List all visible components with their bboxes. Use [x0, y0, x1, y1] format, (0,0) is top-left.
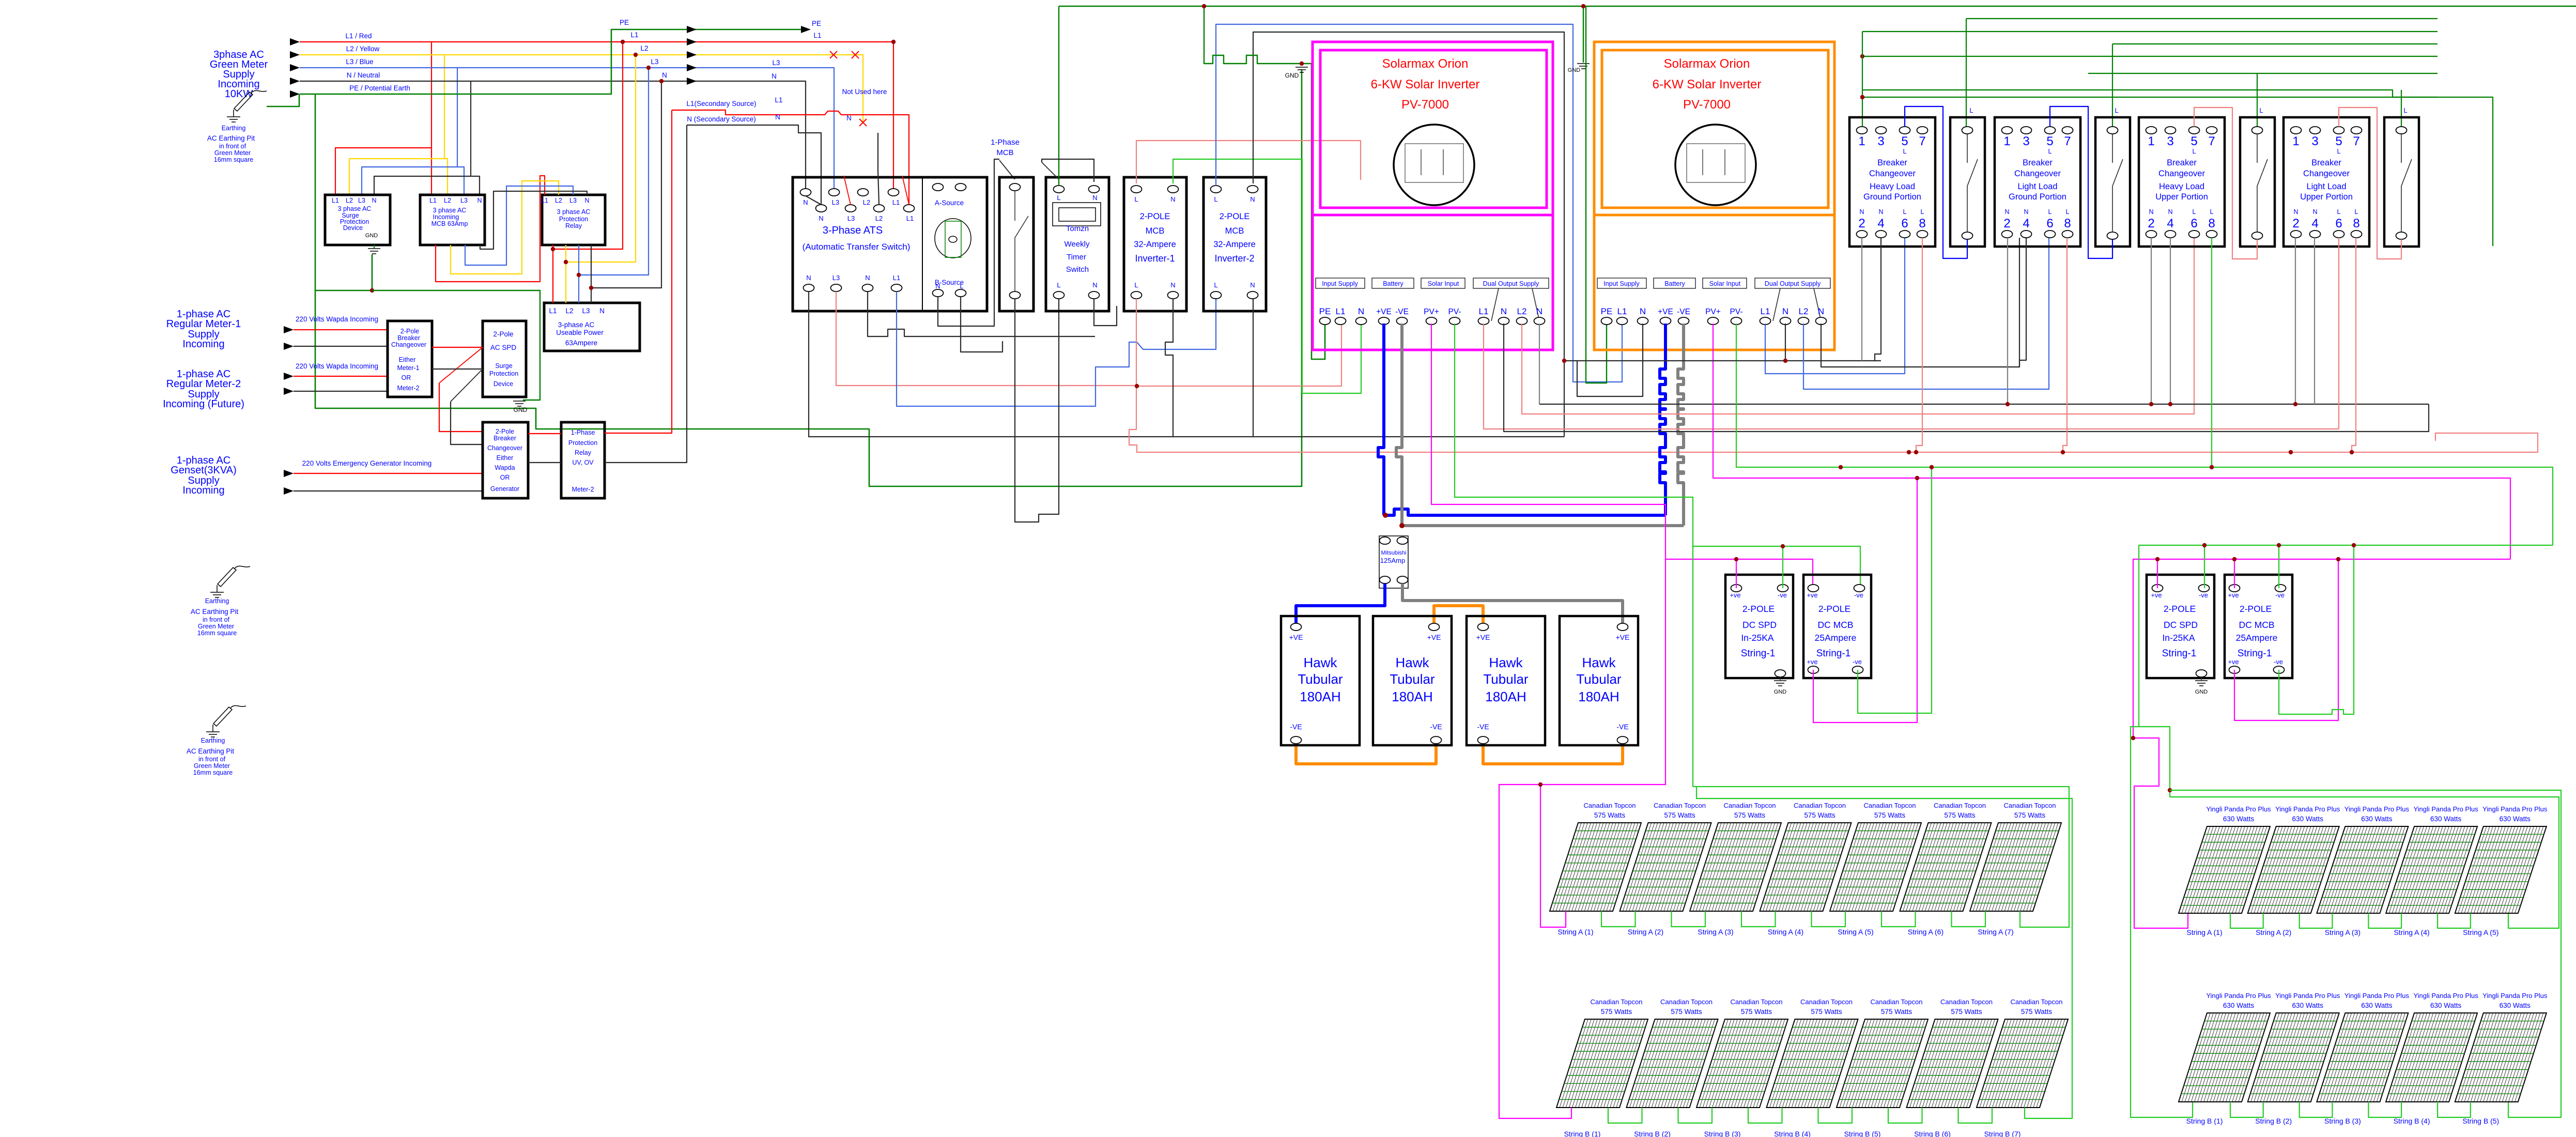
svg-text:Solarmax Orion: Solarmax Orion — [1664, 57, 1750, 71]
svg-text:Heavy Load: Heavy Load — [2159, 182, 2204, 191]
wire breaker4 pin8 drop — [2350, 238, 2356, 454]
svg-text:Ground Portion: Ground Portion — [1863, 192, 1921, 202]
svg-text:Canadian Topcon: Canadian Topcon — [1864, 802, 1916, 809]
tomzn bottom pins — [1054, 281, 1100, 299]
earthing rod 2 — [210, 566, 250, 597]
svg-text:-VE: -VE — [1430, 723, 1442, 731]
svg-text:5: 5 — [2046, 134, 2053, 148]
wire inv2 dual L1 blue — [1765, 238, 1905, 374]
svg-text:L2 / Yellow: L2 / Yellow — [346, 45, 380, 53]
svg-text:2: 2 — [2003, 217, 2010, 231]
svg-text:32-Ampere: 32-Ampere — [1134, 240, 1176, 249]
wire breaker3 pin4 drop — [2168, 238, 2172, 406]
svg-text:1: 1 — [2148, 134, 2154, 148]
svg-text:575 Watts: 575 Watts — [1881, 1008, 1912, 1016]
mitsubishi 125Amp box — [1379, 536, 1408, 588]
svg-text:L2: L2 — [1799, 306, 1809, 316]
svg-text:DC SPD: DC SPD — [2164, 620, 2198, 630]
svg-text:2-POLE: 2-POLE — [1742, 604, 1775, 614]
svg-text:L: L — [1903, 208, 1907, 216]
wire N main black — [300, 81, 806, 192]
svg-text:10KW: 10KW — [225, 88, 253, 100]
svg-text:L2: L2 — [555, 197, 562, 204]
wire left string B return green — [1696, 787, 2072, 1118]
svg-text:L: L — [1903, 148, 1907, 155]
wire relay out L2 yellow — [564, 53, 638, 303]
svg-text:L3: L3 — [651, 58, 658, 66]
label 3phase AC Green Meter Supply Incoming 10KW — [210, 49, 268, 100]
svg-text:575 Watts: 575 Watts — [2014, 811, 2046, 819]
svg-text:Breaker: Breaker — [1877, 158, 1907, 167]
svg-text:63Ampere: 63Ampere — [565, 339, 597, 347]
wires left string B jumpers green — [1608, 1108, 1992, 1123]
wire MCB inv1 N top black — [0, 0, 1, 1]
svg-text:2-Pole: 2-Pole — [400, 328, 419, 335]
wire MCB inv1 L bottom red — [1129, 299, 2538, 452]
svg-text:N: N — [775, 113, 780, 121]
svg-text:+ve: +ve — [1807, 658, 1817, 666]
svg-text:L3: L3 — [460, 197, 468, 204]
svg-text:L1: L1 — [813, 32, 821, 39]
svg-text:Canadian Topcon: Canadian Topcon — [1584, 802, 1636, 809]
svg-text:L: L — [960, 282, 963, 290]
svg-text:Incoming (Future): Incoming (Future) — [163, 398, 244, 410]
wire inv1 dual N1 black — [1504, 324, 2429, 432]
wire dc left mcb bottom -ve green — [1858, 465, 1934, 713]
svg-text:Ground Portion: Ground Portion — [2009, 192, 2066, 202]
svg-text:25Ampere: 25Ampere — [1815, 633, 1857, 643]
x marks not used — [830, 51, 867, 126]
svg-text:N: N — [1878, 208, 1883, 216]
wire left string B feed magenta — [1499, 782, 1571, 1118]
wire breaker1 pin2 drop — [1861, 238, 1862, 361]
gnd symbol inverter1 — [1285, 67, 1308, 79]
wire relay meter2 out black to secondary N — [605, 125, 687, 463]
svg-text:7: 7 — [2208, 134, 2215, 148]
wire ATS out N1 black — [809, 291, 1564, 437]
wires right string A jumpers green — [2230, 913, 2471, 928]
ATS box — [793, 177, 987, 311]
svg-text:5: 5 — [2335, 134, 2342, 148]
wire L3 main blue — [300, 68, 834, 192]
svg-text:Protection: Protection — [568, 439, 597, 447]
wire green bus 4 — [2112, 43, 2438, 44]
svg-text:+ve: +ve — [2228, 658, 2239, 666]
svg-text:Changeover: Changeover — [1869, 169, 1916, 178]
solar panel row Canadian Topcon string A — [1550, 802, 2061, 936]
svg-text:AC Earthing Pit: AC Earthing Pit — [191, 608, 239, 616]
label Earthing 1 — [222, 125, 246, 132]
wire breaker2 pin8 drop — [2061, 238, 2067, 454]
wire ATS out L3 red — [836, 291, 1137, 386]
breaker changeover Heavy Load Ground Portion box — [1849, 117, 1935, 247]
svg-text:L: L — [1969, 106, 1973, 114]
wire breaker1 pin4 drop — [1875, 238, 1881, 361]
svg-text:String B (4): String B (4) — [1774, 1130, 1811, 1137]
svg-text:in front of: in front of — [198, 756, 226, 763]
svg-text:PV-: PV- — [1448, 308, 1461, 316]
svg-text:L2: L2 — [640, 44, 648, 52]
ATS top pins row B — [816, 205, 915, 222]
wire MCB inv2 N top black — [1253, 32, 1564, 437]
ATS bottom pins — [804, 274, 902, 291]
svg-text:PE / Potential Earth: PE / Potential Earth — [349, 84, 410, 92]
svg-text:-ve: -ve — [2275, 591, 2285, 599]
svg-text:Yingli Panda Pro Plus: Yingli Panda Pro Plus — [2344, 992, 2410, 1000]
wire dc right feed magenta — [2131, 557, 2510, 928]
svg-text:L: L — [2210, 208, 2214, 216]
svg-text:PV+: PV+ — [1424, 308, 1439, 316]
wire red tap to genset changeover — [439, 347, 483, 432]
svg-text:UV, OV: UV, OV — [572, 459, 594, 466]
label 220 Volts Wapda Incoming meter-1 — [296, 315, 378, 323]
inverter 2 Solarmax Orion — [1594, 42, 1834, 350]
svg-text:+VE: +VE — [1476, 633, 1490, 641]
svg-text:575 Watts: 575 Watts — [1734, 811, 1766, 819]
wire ATS diagonal L3 red — [844, 176, 851, 205]
svg-text:7: 7 — [2353, 134, 2359, 148]
svg-text:7: 7 — [1919, 134, 1925, 148]
svg-text:+VE: +VE — [1616, 633, 1630, 641]
svg-text:L1: L1 — [775, 96, 782, 104]
svg-text:String B (4): String B (4) — [2394, 1117, 2430, 1125]
svg-text:L1: L1 — [1336, 306, 1346, 316]
svg-text:String A (4): String A (4) — [2394, 928, 2429, 936]
wire PE to earthing pit — [267, 94, 299, 106]
label 1-phase AC Regular Meter-1 Supply Incoming — [166, 309, 241, 350]
svg-text:-VE: -VE — [1395, 308, 1409, 316]
svg-text:2-POLE: 2-POLE — [2164, 604, 2196, 614]
svg-text:Useable Power: Useable Power — [556, 329, 604, 336]
svg-text:Relay: Relay — [565, 222, 582, 229]
svg-text:Upper Portion: Upper Portion — [2300, 192, 2353, 202]
svg-text:4: 4 — [2167, 217, 2173, 231]
wire right string B return green — [2170, 790, 2561, 1117]
ground below surge protection — [368, 245, 380, 254]
svg-text:in front of: in front of — [219, 143, 246, 150]
wire green riser switch2 — [2112, 44, 2113, 127]
wire green riser switch3 — [2257, 73, 2258, 127]
wire inv1 PV- green — [1455, 324, 1860, 588]
svg-text:L1: L1 — [429, 197, 437, 204]
svg-text:Light Load: Light Load — [2017, 182, 2057, 191]
svg-text:N: N — [1818, 306, 1824, 316]
svg-text:L: L — [2259, 106, 2263, 114]
svg-text:L: L — [2048, 208, 2052, 216]
label N secondary — [775, 113, 852, 122]
svg-text:L: L — [1214, 281, 1217, 289]
wire left string A return green — [1693, 546, 2069, 927]
svg-text:N: N — [803, 198, 808, 206]
svg-text:PV-: PV- — [1730, 308, 1743, 316]
svg-text:DC SPD: DC SPD — [1742, 620, 1777, 630]
svg-text:Device: Device — [343, 224, 363, 232]
wire tomzn L top green — [1058, 6, 1059, 186]
svg-text:16mm square: 16mm square — [193, 769, 233, 776]
svg-text:String A (1): String A (1) — [2186, 928, 2222, 936]
wire inv1 input N green — [1173, 159, 1361, 393]
label L1 Secondary Source — [686, 100, 756, 107]
wire right string A return green — [2170, 797, 2559, 928]
svg-text:2-POLE: 2-POLE — [1220, 212, 1250, 221]
wire dc right mcb bottom -ve green — [2279, 543, 2356, 714]
svg-text:4: 4 — [2023, 217, 2029, 231]
wire gnd drop inverter2 — [1581, 4, 1585, 63]
wire battery1 battery2 jumper orange bottom — [1296, 740, 1436, 764]
svg-text:3: 3 — [2167, 134, 2173, 148]
wire breaker3 pin8 drop green — [2210, 238, 2214, 469]
svg-text:630 Watts: 630 Watts — [2223, 1002, 2255, 1009]
wire PE main green — [300, 26, 811, 94]
arrow meter2 L — [284, 373, 388, 380]
svg-text:Hawk: Hawk — [1489, 655, 1523, 670]
svg-text:String A (7): String A (7) — [1978, 928, 2013, 936]
dc mcb string-1 left box — [1803, 575, 1871, 678]
svg-text:String A (3): String A (3) — [2325, 928, 2361, 936]
svg-text:Changeover: Changeover — [391, 341, 426, 348]
svg-text:6: 6 — [2191, 217, 2197, 231]
wire inv2 input N black — [1577, 324, 1643, 396]
svg-text:L1: L1 — [893, 274, 900, 282]
svg-text:String-1: String-1 — [2162, 648, 2197, 659]
svg-text:String B (5): String B (5) — [2462, 1117, 2499, 1125]
svg-text:2: 2 — [1858, 217, 1865, 231]
wire green riser breaker1 pin1 — [1860, 32, 1864, 127]
svg-text:Input Supply: Input Supply — [1322, 280, 1358, 287]
svg-text:Canadian Topcon: Canadian Topcon — [1660, 998, 1713, 1006]
label 1-phase AC Genset 3KVA Supply Incoming — [171, 455, 236, 496]
svg-text:Changeover: Changeover — [487, 444, 522, 452]
svg-text:16mm square: 16mm square — [214, 156, 253, 163]
svg-text:PV+: PV+ — [1705, 308, 1721, 316]
svg-text:2-POLE: 2-POLE — [1818, 604, 1850, 614]
wire ATS drop L2 black — [878, 133, 879, 205]
svg-text:N: N — [2312, 208, 2317, 216]
svg-text:5: 5 — [2191, 134, 2197, 148]
svg-text:Breaker: Breaker — [2023, 158, 2053, 167]
svg-text:Tubular: Tubular — [1390, 671, 1435, 687]
svg-text:Solar Input: Solar Input — [1709, 280, 1741, 287]
svg-text:Tubular: Tubular — [1483, 671, 1529, 687]
svg-text:Breaker: Breaker — [2311, 158, 2341, 167]
svg-text:N: N — [1250, 195, 1255, 203]
svg-text:DC MCB: DC MCB — [2239, 620, 2274, 630]
svg-text:Tomzn: Tomzn — [1066, 224, 1089, 233]
svg-text:Canadian Topcon: Canadian Topcon — [1940, 998, 1993, 1006]
svg-text:MCB: MCB — [1146, 226, 1165, 236]
svg-text:GND: GND — [1568, 67, 1581, 73]
svg-text:+VE: +VE — [1376, 308, 1392, 316]
svg-text:+VE: +VE — [1427, 633, 1441, 641]
ac spd box — [483, 321, 526, 397]
svg-text:8: 8 — [2208, 217, 2215, 231]
svg-text:MCB: MCB — [996, 148, 1013, 157]
svg-text:630 Watts: 630 Watts — [2430, 815, 2462, 823]
svg-text:2-Pole: 2-Pole — [493, 330, 513, 338]
svg-text:+ve: +ve — [1807, 591, 1817, 599]
svg-text:125Amp: 125Amp — [1380, 557, 1405, 564]
2-pole MCB Inverter-2 box — [1204, 177, 1266, 311]
svg-text:220 Volts Emergency Generator: 220 Volts Emergency Generator Incoming — [302, 459, 432, 467]
svg-text:L: L — [2193, 148, 2196, 155]
svg-text:N: N — [1501, 306, 1507, 316]
svg-text:L1: L1 — [541, 197, 548, 204]
svg-text:16mm square: 16mm square — [197, 629, 237, 637]
wire inv2 dual N2 gray — [1821, 238, 2019, 367]
wire breaker1 pin5 to switch1 blue — [1905, 106, 1967, 258]
svg-text:1: 1 — [2292, 134, 2299, 148]
svg-text:Weekly: Weekly — [1065, 240, 1090, 249]
svg-text:-VE: -VE — [1616, 723, 1628, 731]
svg-text:GND: GND — [365, 233, 378, 239]
svg-text:L: L — [2115, 106, 2118, 114]
svg-text:PV-7000: PV-7000 — [1401, 98, 1449, 112]
svg-text:575 Watts: 575 Watts — [1741, 1008, 1772, 1016]
wire L2 main yellow (not used) — [300, 55, 863, 122]
svg-text:Canadian Topcon: Canadian Topcon — [1794, 802, 1846, 809]
svg-text:L1(Secondary Source): L1(Secondary Source) — [686, 100, 756, 107]
meter changeover box — [388, 321, 432, 397]
svg-text:PV-7000: PV-7000 — [1683, 98, 1731, 112]
svg-text:4: 4 — [2311, 217, 2318, 231]
svg-text:L: L — [1134, 195, 1138, 203]
wire genset changeover to relay red — [528, 433, 561, 434]
svg-text:3-phase AC: 3-phase AC — [558, 321, 595, 329]
wire breaker4 pin6 drop — [2338, 238, 2339, 429]
svg-text:In-25KA: In-25KA — [1741, 633, 1774, 643]
wire MCB to relay N black — [480, 191, 587, 249]
switch box 2 — [2095, 106, 2130, 247]
svg-text:L1 / Red: L1 / Red — [345, 32, 372, 40]
battery 3 Hawk Tubular 180AH — [1467, 616, 1545, 745]
wire inv1 PV+ magenta — [1431, 324, 1813, 588]
wire inv1 battery -VE thick gray — [1396, 324, 1684, 528]
svg-text:220 Volts Wapda Incoming: 220 Volts Wapda Incoming — [296, 315, 378, 323]
svg-text:N: N — [2293, 208, 2298, 216]
wire surge gnd green — [315, 254, 374, 293]
switch box 4 — [2384, 106, 2419, 247]
label Not Used here — [842, 88, 887, 96]
label PE — [812, 20, 821, 27]
wires right string B jumpers green — [2230, 1102, 2471, 1117]
label AC Earthing Pit 3 — [187, 747, 235, 776]
svg-text:575 Watts: 575 Watts — [1811, 1008, 1842, 1016]
svg-text:Battery: Battery — [1664, 280, 1685, 287]
svg-text:L: L — [2403, 106, 2407, 114]
svg-text:Timer: Timer — [1067, 253, 1086, 262]
wire tomzn N top black — [1042, 159, 1094, 182]
svg-text:-ve: -ve — [1854, 591, 1863, 599]
wire green bus 3 — [1862, 31, 2438, 32]
svg-text:Dual Output Supply: Dual Output Supply — [1483, 280, 1539, 287]
wire bus red 876 dots — [1907, 450, 2293, 454]
svg-text:630 Watts: 630 Watts — [2292, 1002, 2324, 1009]
wire dc right mcb bottom +ve magenta — [2234, 557, 2340, 720]
svg-text:-ve: -ve — [2274, 658, 2283, 666]
svg-text:String B (2): String B (2) — [2255, 1117, 2292, 1125]
svg-text:N: N — [1092, 194, 1097, 202]
wire 1-phase MCB bottom loop — [1015, 299, 1059, 522]
svg-text:575 Watts: 575 Watts — [1874, 811, 1906, 819]
svg-text:Incoming: Incoming — [433, 213, 459, 221]
svg-text:Yingli Panda Pro Plus: Yingli Panda Pro Plus — [2482, 805, 2548, 813]
svg-text:6: 6 — [2335, 217, 2342, 231]
phase protection relay meter-2 box — [561, 422, 605, 498]
svg-text:Protection: Protection — [559, 216, 588, 223]
label N Secondary Source — [687, 115, 756, 123]
wire ATS diagonal L1 red — [902, 176, 909, 205]
svg-text:+ve: +ve — [2151, 591, 2162, 599]
svg-text:N: N — [1640, 306, 1646, 316]
wire ac spd gnd green — [372, 290, 540, 400]
wire MCB to relay L3 blue — [465, 186, 573, 265]
wire PE inverter2 loop — [1586, 6, 1607, 383]
svg-text:Earthing: Earthing — [222, 125, 246, 132]
svg-text:L1: L1 — [1761, 306, 1770, 316]
svg-text:N: N — [662, 71, 667, 79]
svg-text:Relay: Relay — [575, 449, 592, 456]
wire breaker3 pin2 drop — [2149, 238, 2153, 406]
label L1 second — [813, 32, 821, 39]
wire mitsubishi to battery4 thick gray — [1402, 583, 1623, 627]
svg-text:180AH: 180AH — [1578, 689, 1619, 704]
svg-text:L: L — [2193, 208, 2196, 216]
svg-text:3 phase AC: 3 phase AC — [338, 205, 372, 212]
svg-text:2-POLE: 2-POLE — [1140, 212, 1170, 221]
svg-text:AC Earthing Pit: AC Earthing Pit — [187, 747, 235, 755]
svg-text:3-Phase ATS: 3-Phase ATS — [823, 225, 883, 236]
svg-text:L1: L1 — [1479, 306, 1489, 316]
svg-text:-ve: -ve — [2199, 591, 2208, 599]
svg-text:L1: L1 — [332, 197, 339, 204]
svg-text:Regular Meter-2: Regular Meter-2 — [166, 378, 241, 390]
svg-text:3 phase AC: 3 phase AC — [557, 208, 591, 216]
svg-text:N: N — [1170, 281, 1175, 289]
svg-text:Meter-1: Meter-1 — [397, 364, 419, 372]
wire inv2 battery risers jog marks — [0, 0, 1, 1]
wire breaker1 pin8 drop — [1914, 238, 1922, 454]
svg-text:String A (2): String A (2) — [2256, 928, 2291, 936]
svg-text:String B (3): String B (3) — [2324, 1117, 2361, 1125]
svg-text:Input Supply: Input Supply — [1603, 280, 1640, 287]
1-phase MCB pins and switch — [1010, 183, 1029, 299]
wire left string A feed magenta — [1540, 559, 1665, 927]
svg-text:Yingli Panda Pro Plus: Yingli Panda Pro Plus — [2413, 805, 2478, 813]
svg-text:Protection: Protection — [489, 370, 518, 377]
svg-text:Hawk: Hawk — [1395, 655, 1429, 670]
label 220 Volts Wapda Incoming meter-2 — [296, 362, 378, 370]
svg-text:575 Watts: 575 Watts — [1944, 811, 1976, 819]
svg-text:Hawk: Hawk — [1582, 655, 1616, 670]
svg-text:N: N — [477, 197, 482, 204]
svg-text:L2: L2 — [444, 197, 451, 204]
svg-text:L3: L3 — [582, 307, 590, 315]
svg-text:180AH: 180AH — [1300, 689, 1341, 704]
wires left string A jumpers green — [1601, 911, 1985, 927]
svg-text:String A (5): String A (5) — [1838, 928, 1873, 936]
svg-text:Breaker: Breaker — [397, 334, 420, 342]
svg-text:Earthing: Earthing — [205, 597, 229, 605]
wire MCB inv2 N bottom black — [1253, 299, 1254, 437]
svg-text:String B (6): String B (6) — [1914, 1130, 1951, 1137]
svg-text:L3 / Blue: L3 / Blue — [346, 58, 373, 66]
svg-text:2: 2 — [2292, 217, 2299, 231]
svg-text:Regular Meter-1: Regular Meter-1 — [166, 318, 241, 330]
wire L1 secondary red — [672, 110, 909, 208]
solar panel row Yingli string B — [2179, 992, 2548, 1125]
inverter 1 Solarmax Orion — [1313, 42, 1553, 350]
svg-text:N: N — [935, 282, 940, 290]
